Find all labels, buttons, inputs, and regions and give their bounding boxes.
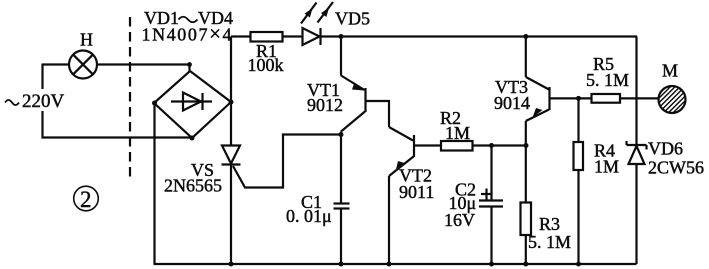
svg-text:9014: 9014 xyxy=(494,93,530,113)
svg-text:100k: 100k xyxy=(248,55,284,75)
svg-text:16V: 16V xyxy=(444,210,475,230)
svg-text:5. 1M: 5. 1M xyxy=(528,232,571,252)
svg-text:0. 01μ: 0. 01μ xyxy=(286,206,332,226)
svg-text:9012: 9012 xyxy=(307,95,343,115)
svg-text:M: M xyxy=(662,61,678,81)
svg-text:VD5: VD5 xyxy=(335,9,370,29)
svg-text:5. 1M: 5. 1M xyxy=(586,70,629,90)
svg-text:2CW56: 2CW56 xyxy=(648,158,704,178)
svg-text:1M: 1M xyxy=(594,157,619,177)
svg-text:H: H xyxy=(80,30,93,50)
svg-text:220V: 220V xyxy=(22,91,65,112)
svg-text:VD6: VD6 xyxy=(648,139,683,159)
svg-text:2: 2 xyxy=(80,187,92,212)
svg-text:2N6565: 2N6565 xyxy=(164,176,222,196)
svg-text:9011: 9011 xyxy=(399,182,434,202)
svg-text:R3: R3 xyxy=(539,214,560,234)
svg-text:1M: 1M xyxy=(445,123,470,143)
